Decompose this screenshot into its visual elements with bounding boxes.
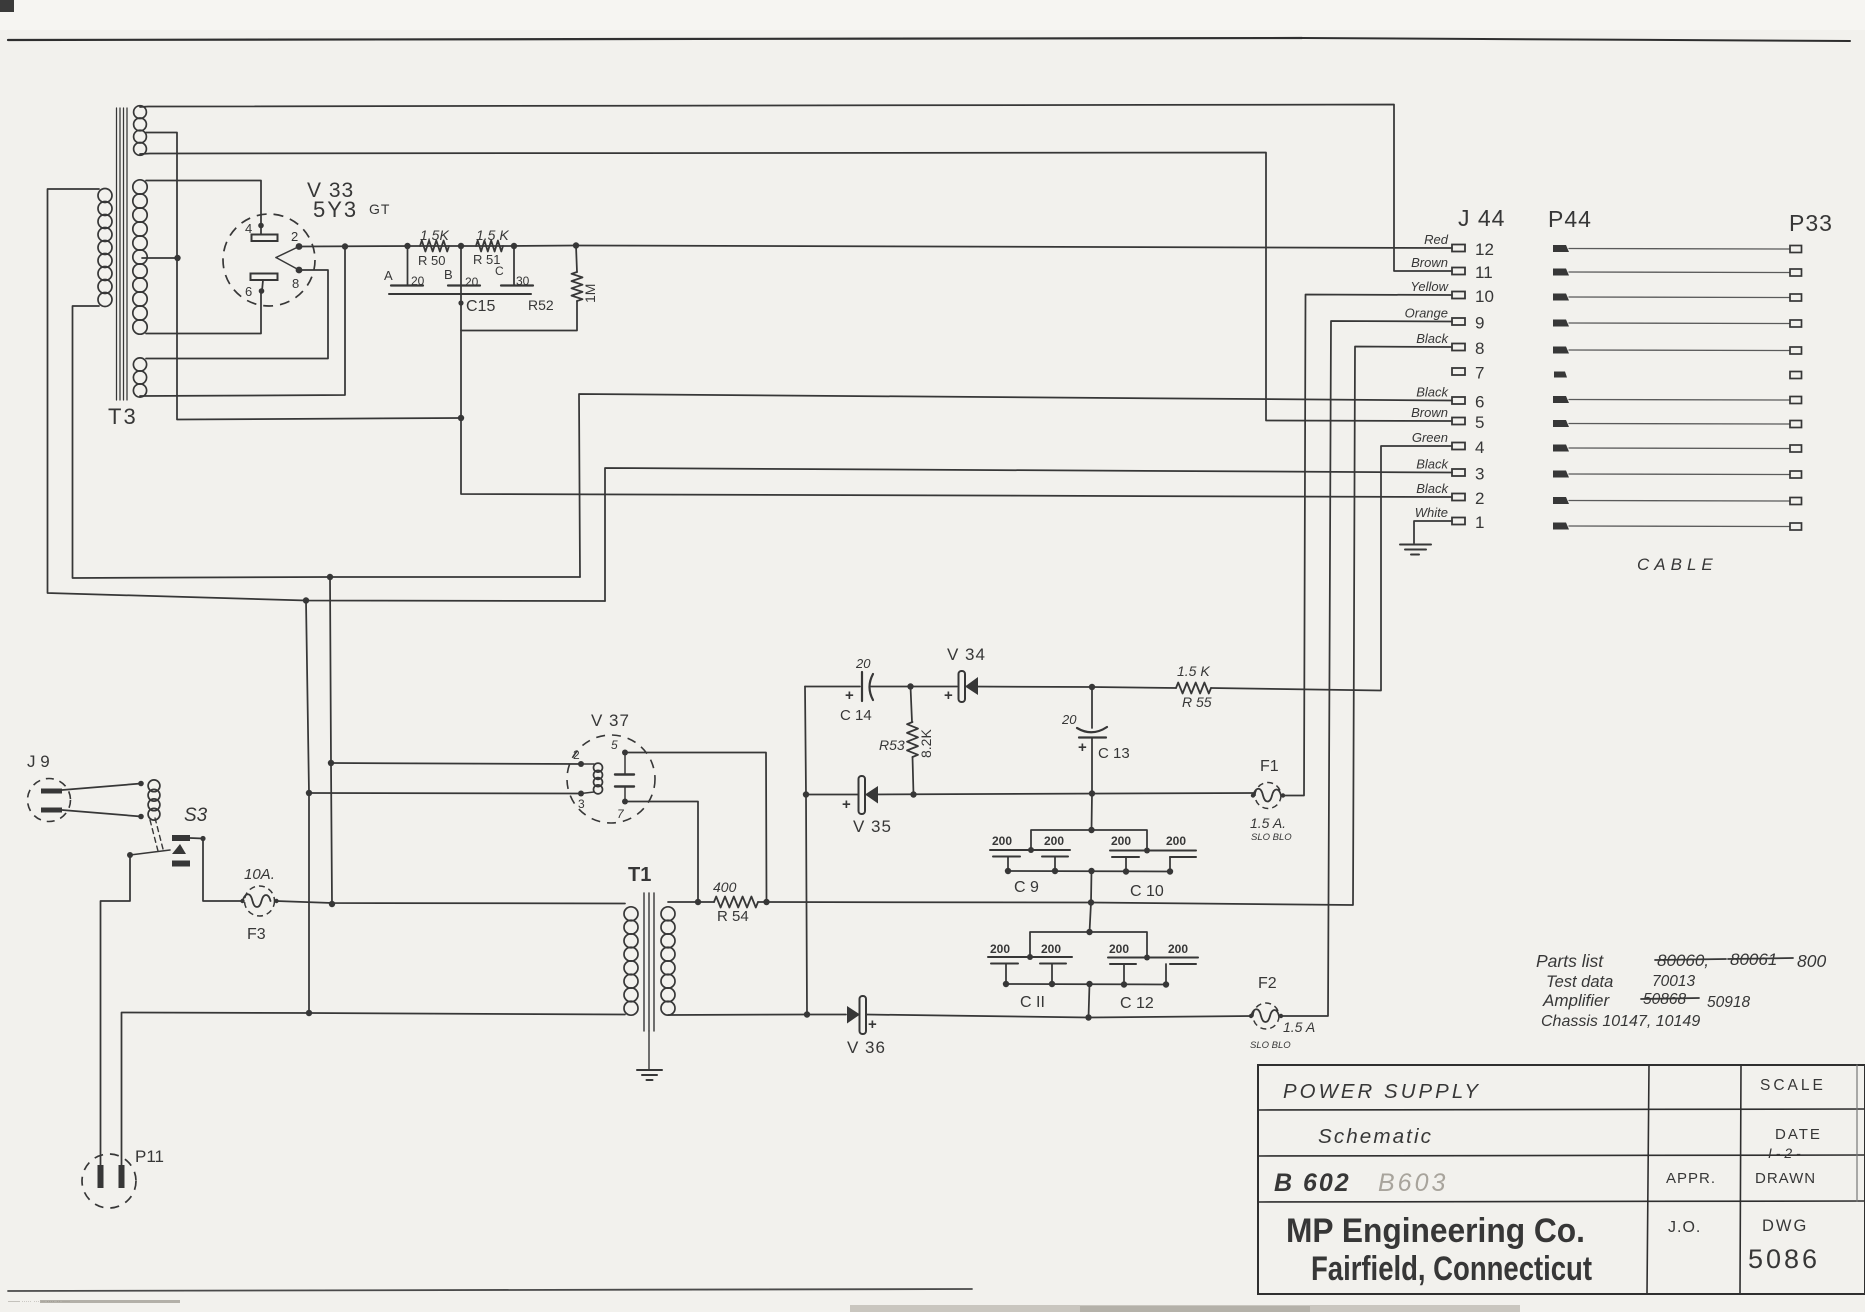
wire top 5V winding top to J44 pin11 via top run: [140, 105, 1452, 272]
C11 bottom plates and stubs: [991, 963, 1018, 965]
svg-text:C: C: [495, 264, 504, 278]
transformer T3 secondary winding middle (HV): [133, 180, 147, 194]
junction dot C15A top: [404, 243, 410, 249]
wire T1 secondary top to R54: [668, 901, 714, 903]
svg-text:F2: F2: [1258, 975, 1277, 992]
J44 pin 11 terminal: [1452, 268, 1465, 275]
C11/C12 feed from R54 rail: [1090, 903, 1092, 933]
P44 pin 5 contact: [1553, 420, 1569, 427]
svg-text:C II: C II: [1020, 994, 1045, 1011]
wire P11 right prong up to V36 rail: [122, 1013, 311, 1166]
V33 pin 8 dot: [296, 267, 303, 274]
wire 5V winding bottom to J44 pin5 via second run: [140, 153, 1452, 422]
svg-text:V 35: V 35: [853, 817, 892, 836]
junction dot upper bus at x330: [327, 574, 333, 580]
svg-text:10: 10: [1475, 287, 1494, 306]
wire C14-V34 top rail: [805, 686, 860, 688]
P44 pin 3 contact: [1553, 471, 1569, 478]
svg-text:Brown: Brown: [1411, 255, 1448, 270]
junction dot V35 left: [803, 791, 809, 797]
P33 pin 6 contact: [1790, 397, 1802, 404]
svg-text:White: White: [1415, 505, 1448, 520]
C15 common bottom plate: [389, 293, 531, 295]
svg-text:200: 200: [990, 942, 1010, 956]
svg-text:V 37: V 37: [591, 711, 630, 730]
C9 bottom plates and stubs: [993, 856, 1020, 858]
wire upper bus up and right to J44 pin 6: [579, 394, 1452, 577]
C12 bottom plates and stubs: [1110, 963, 1136, 965]
junction dot V36 rail at x309: [306, 1010, 312, 1016]
T1 ground symbol: [637, 1069, 662, 1071]
C11/C12 center drop to V36 rail: [1089, 984, 1090, 1018]
fuse F1 1.5A: [1255, 783, 1281, 809]
P44 pin 11 contact: [1553, 269, 1569, 276]
junction dot bracket center: [1088, 827, 1094, 833]
svg-text:R52: R52: [528, 297, 554, 313]
P33 pin 1 contact: [1790, 523, 1802, 530]
title block column line 2: [1740, 1065, 1741, 1294]
svg-text:200: 200: [1044, 834, 1064, 848]
svg-text:1: 1: [1475, 513, 1484, 532]
P44 pin 12 contact: [1553, 245, 1569, 252]
rectifier V36 arrow: [847, 1006, 860, 1024]
svg-text:Black: Black: [1416, 331, 1449, 346]
svg-text:200: 200: [1168, 942, 1188, 956]
C12 top plates: [1108, 957, 1198, 959]
svg-text:Orange: Orange: [1405, 306, 1448, 321]
P33 pin 9 contact: [1790, 320, 1802, 327]
P33 pin 10 contact: [1790, 294, 1802, 301]
junction dot R53 bottom: [910, 791, 916, 797]
rectifier V36 plate bar: [860, 996, 867, 1034]
svg-text:Parts list: Parts list: [1536, 951, 1604, 971]
P33 pin 11 contact: [1790, 269, 1802, 276]
cable wire P44 pin 9 to P33: [1569, 322, 1790, 325]
J44 pin 1 short wire and ground: [1414, 521, 1452, 543]
svg-text:20: 20: [855, 656, 871, 671]
cable wire P44 pin 1 to P33: [1569, 525, 1790, 528]
C15 common down to pin2 long wire: [461, 331, 1452, 498]
svg-text:1.5 K: 1.5 K: [476, 227, 509, 243]
svg-text:6: 6: [245, 284, 252, 299]
junction dot C11/C12 bus center: [1086, 981, 1092, 987]
svg-text:C 14: C 14: [840, 707, 872, 724]
svg-text:Brown: Brown: [1411, 405, 1448, 420]
P33 pin 7 contact: [1790, 372, 1802, 379]
capacitor C15 section A lead: [407, 246, 409, 286]
svg-text:DATE: DATE: [1775, 1126, 1822, 1143]
svg-text:8.2K: 8.2K: [918, 729, 934, 758]
svg-text:SCALE: SCALE: [1760, 1077, 1826, 1094]
S3 pivot dot: [127, 852, 133, 858]
svg-text:J 9: J 9: [27, 752, 50, 771]
P11 left prong: [98, 1165, 104, 1188]
resistor R54 400: [714, 897, 758, 908]
V37 pin 5 dot: [622, 750, 628, 756]
junction dot C11 plates: [1027, 954, 1033, 960]
P44 pin 6 contact: [1553, 396, 1569, 403]
sheet bottom border line: [8, 1289, 972, 1291]
svg-text:20: 20: [1061, 712, 1077, 727]
junction dot center-tap rail meets C15 ground chain: [458, 415, 464, 421]
svg-text:1.5 A.: 1.5 A.: [1250, 815, 1286, 831]
svg-text:P33: P33: [1789, 210, 1833, 236]
capacitor C14 curved plate: [870, 674, 874, 700]
svg-text:5Y3: 5Y3: [313, 197, 358, 222]
mechanical linkage (dashed) from coil to S3: [150, 820, 158, 851]
P44 pin 8 contact: [1553, 347, 1569, 354]
resistor R50 1.5K: [420, 241, 449, 252]
V37 heater coil: [594, 763, 603, 772]
P33 pin 2 contact: [1790, 498, 1802, 505]
svg-text:C 12: C 12: [1120, 995, 1154, 1012]
tube V33 5Y3GT envelope (dashed circle): [223, 214, 315, 306]
C10 top plates: [1110, 850, 1196, 852]
transformer T3 primary winding (left): [98, 189, 112, 203]
C15 common to R52 bottom wire: [461, 294, 577, 331]
svg-text:3: 3: [1475, 465, 1484, 484]
cable wire P44 pin 4 to P33: [1569, 447, 1790, 450]
sheet top border line: [8, 38, 1302, 40]
svg-text:1.5K: 1.5K: [420, 227, 449, 243]
C15 section C lead: [513, 246, 515, 286]
svg-text:+: +: [944, 687, 953, 704]
wire bottom winding bottom up to main output wire: [140, 247, 345, 397]
cable wire P44 pin 11 to P33: [1569, 271, 1790, 274]
svg-text:SLO BLO: SLO BLO: [1251, 832, 1292, 843]
P11 right prong: [119, 1165, 125, 1188]
title block row line 1: [1258, 1109, 1865, 1110]
title block row line 2: [1258, 1155, 1865, 1156]
P33 pin 4 contact: [1790, 445, 1802, 452]
svg-text:5: 5: [1475, 413, 1484, 432]
svg-text:8: 8: [1475, 339, 1484, 358]
wire V33 pin2 main output run to J44 pin 12: [299, 246, 1452, 249]
J9 lower pin: [41, 808, 62, 813]
P33 pin 3 contact: [1790, 471, 1802, 478]
junction dot coil top: [138, 781, 144, 787]
wire to V37 pin 2: [331, 763, 581, 764]
wire S3 upper contact to F3: [190, 838, 243, 901]
transformer T3 secondary winding bottom: [133, 358, 146, 371]
svg-text:50918: 50918: [1707, 994, 1750, 1011]
svg-text:GT: GT: [369, 201, 390, 217]
junction dot V36 rail center: [1085, 1014, 1091, 1020]
rectifier V35 plate bar: [859, 776, 866, 814]
V36 rail wire: [807, 1014, 846, 1016]
svg-text:30: 30: [516, 274, 530, 288]
svg-text:Green: Green: [1412, 430, 1448, 445]
svg-text:200: 200: [1166, 834, 1186, 848]
vertical drop to V37 pin 3: [306, 601, 309, 1014]
V33 pin 2 dot: [296, 243, 303, 250]
J44 pin 8 terminal: [1452, 344, 1465, 351]
C9 top plates: [990, 849, 1070, 851]
fuse F2 1.5A: [1253, 1003, 1279, 1029]
fuse F3 10A: [245, 886, 275, 916]
junction dot R54 left (V37 pin7 net): [695, 899, 701, 905]
svg-text:S3: S3: [184, 805, 208, 826]
V35 rail wire: [806, 794, 858, 796]
J44 pin 12 terminal: [1452, 245, 1465, 252]
junction dot V36 rail left: [804, 1011, 810, 1017]
svg-text:Chassis 10147, 10149: Chassis 10147, 10149: [1541, 1013, 1700, 1030]
junction dot HV center tap: [174, 255, 180, 261]
wire S3 pivot down to P11 left prong: [101, 855, 131, 1167]
P44 pin 2 contact: [1553, 497, 1569, 504]
switch S3 lower contact: [172, 861, 190, 867]
junction dot R54 right (V37 pin5 net): [763, 899, 769, 905]
junction dot bracket center (C11/C12): [1086, 929, 1092, 935]
cable wire P44 pin 5 to P33: [1569, 423, 1790, 426]
svg-text:POWER SUPPLY: POWER SUPPLY: [1283, 1081, 1481, 1103]
P44 pin 10 contact: [1553, 294, 1569, 301]
C15 section B top plate: [448, 284, 480, 286]
svg-text:4: 4: [1475, 438, 1484, 457]
svg-text:+: +: [1078, 739, 1087, 756]
svg-text:200: 200: [1041, 942, 1061, 956]
svg-text:20: 20: [465, 275, 479, 289]
svg-text:V 36: V 36: [847, 1038, 886, 1057]
resistor R51 1.5K: [476, 241, 503, 252]
svg-text:5086: 5086: [1748, 1244, 1820, 1274]
junction dot R53 top: [907, 683, 913, 689]
J9 upper pin: [41, 789, 62, 794]
wire T3 primary top to left bus (down left side): [48, 189, 606, 601]
junction dot C15C top: [511, 243, 517, 249]
vertical tie C14 rail / V35 rail / V36 rail: [805, 687, 807, 1015]
svg-text:P11: P11: [135, 1147, 164, 1166]
cable wire P44 pin 12 to P33: [1569, 248, 1790, 251]
junction dot bottom bus center: [1088, 868, 1094, 874]
svg-text:2: 2: [1475, 489, 1484, 508]
svg-text:+: +: [845, 687, 854, 704]
svg-text:CABLE: CABLE: [1637, 555, 1718, 574]
svg-text:B603: B603: [1378, 1169, 1448, 1197]
svg-text:APPR.: APPR.: [1666, 1170, 1716, 1187]
junction dot C10 plates: [1144, 848, 1150, 854]
svg-text:Yellow: Yellow: [1410, 279, 1449, 294]
cable wire P44 pin 2 to P33: [1569, 500, 1790, 503]
svg-text:10A.: 10A.: [244, 866, 275, 883]
J44 pin 5 terminal: [1452, 418, 1465, 425]
wire V36 rail from P11 through to T1 primary bottom: [310, 1013, 625, 1015]
svg-text:6: 6: [1475, 393, 1484, 412]
svg-text:Black: Black: [1416, 457, 1449, 472]
title block frame: [1258, 1065, 1865, 1294]
title block column line 1: [1647, 1065, 1649, 1294]
vertical drop to V37 pin 2: [330, 577, 332, 904]
junction dot C13 bottom: [1089, 790, 1095, 796]
svg-text:R53: R53: [879, 737, 905, 753]
svg-text:5: 5: [611, 738, 618, 752]
svg-text:3: 3: [578, 797, 585, 811]
V33 pin 6 lead and bottom plate: [251, 274, 278, 281]
svg-text:11: 11: [1475, 263, 1493, 282]
wire 5V winding tap down to HV center tap rail: [146, 133, 461, 420]
junction dot R54 rail center: [1088, 899, 1094, 905]
svg-text:4: 4: [245, 221, 252, 236]
svg-text:J 44: J 44: [1458, 205, 1505, 231]
J44 pin 4 terminal: [1452, 443, 1465, 450]
svg-text:F1: F1: [1260, 758, 1279, 775]
junction dot C15B top: [458, 243, 464, 249]
junction dot C12 plates: [1144, 955, 1150, 961]
wire F2 right to J44 pin 9 riser: [1281, 321, 1452, 1016]
junction dot R52 top: [573, 242, 579, 248]
svg-text:SLO BLO: SLO BLO: [1250, 1040, 1291, 1051]
svg-text:T3: T3: [108, 404, 138, 429]
P44 pin 9 contact: [1553, 320, 1569, 327]
svg-text:7: 7: [1475, 364, 1484, 383]
J44 pin 10 terminal: [1452, 292, 1465, 299]
T1 primary winding (left): [624, 907, 638, 921]
C11/C12 top bracket: [1030, 932, 1147, 957]
P44 pin 4 contact: [1553, 445, 1569, 452]
wire T3 primary bottom to inner left bus: [73, 306, 581, 578]
svg-text:C 10: C 10: [1130, 883, 1164, 900]
wire R55 to J44 pin 4 riser: [1211, 446, 1452, 691]
svg-text:B: B: [444, 267, 453, 282]
title block row line 3: [1258, 1201, 1865, 1202]
capacitor C13 straight plate: [1079, 736, 1106, 738]
rectifier V34 plate bar: [959, 671, 966, 702]
svg-text:400: 400: [713, 879, 737, 895]
svg-text:+: +: [868, 1016, 877, 1033]
svg-text:R 54: R 54: [717, 908, 749, 925]
P44 pin 7 contact: [1554, 372, 1567, 378]
P33 pin 8 contact: [1790, 347, 1802, 354]
C13 lead to V35 rail: [1091, 738, 1093, 794]
C9/C10 feed from V35 rail: [1091, 794, 1094, 831]
V33 filament V between pins 2 and 8: [276, 247, 299, 258]
junction dot C9 plates: [1028, 847, 1034, 853]
T1 secondary winding (right): [661, 907, 675, 921]
svg-text:C 13: C 13: [1098, 745, 1130, 762]
svg-text:Amplifier: Amplifier: [1542, 991, 1610, 1010]
svg-text:Schematic: Schematic: [1318, 1126, 1433, 1148]
svg-text:1M: 1M: [582, 284, 598, 303]
C15 section B lead: [460, 246, 462, 294]
transformer T3 secondary winding top (5V): [134, 106, 147, 119]
wire HV winding bottom to V33 pin 6: [146, 291, 261, 334]
resistor R55 1.5K: [1176, 683, 1211, 694]
svg-text:—— ····· ··· ·· ···· ·· ···: —— ····· ··· ·· ···· ·· ····: [8, 1299, 70, 1305]
J44 pin 3 terminal: [1452, 469, 1465, 476]
junction dot lower bus at x306: [303, 597, 309, 603]
svg-text:R 50: R 50: [418, 253, 445, 268]
svg-text:F3: F3: [247, 926, 266, 943]
junction dot C13 top: [1089, 684, 1095, 690]
wire F1 right to J44 pin 10 riser: [1283, 295, 1452, 796]
wire HV winding top to V33 pin 4: [146, 181, 261, 225]
svg-text:DWG: DWG: [1762, 1217, 1808, 1235]
capacitor C14 straight plate: [861, 672, 863, 701]
svg-text:C15: C15: [466, 298, 495, 315]
svg-text:1.5 A: 1.5 A: [1283, 1019, 1315, 1035]
transformer T1 core: [643, 893, 645, 1031]
svg-text:V 34: V 34: [947, 645, 986, 664]
svg-text:P44: P44: [1548, 206, 1592, 232]
V37 pin 2 dot: [578, 761, 584, 767]
wire F3 to T1 primary top: [276, 901, 625, 904]
svg-text:Black: Black: [1416, 385, 1449, 400]
svg-text:A: A: [384, 268, 393, 283]
switch S3 arm with arrowhead: [130, 850, 170, 855]
C11 top plates: [988, 956, 1072, 958]
J44 pin 6 terminal: [1452, 397, 1465, 404]
C9/C10 top bracket: [1031, 830, 1147, 850]
C15 section A top plate: [391, 284, 423, 286]
transformer T3 core: [116, 108, 118, 400]
wire to V37 pin 3: [309, 792, 581, 795]
sheet right edge line: [1856, 1065, 1858, 1201]
wire V37 pin5 right and down to R54 right: [625, 753, 767, 903]
svg-text:12: 12: [1475, 240, 1494, 259]
J44 pin 7 terminal: [1452, 368, 1465, 375]
junction dot at x345: [342, 243, 348, 249]
junction dot V37 pin3 branch: [306, 790, 312, 796]
svg-text:200: 200: [992, 834, 1012, 848]
capacitor C13 lead from top rail: [1091, 687, 1093, 728]
cable wire P44 pin 10 to P33: [1569, 296, 1790, 299]
J44 pin 1 terminal: [1452, 518, 1465, 525]
resistor R53 8.2K: [911, 687, 913, 723]
svg-text:2: 2: [291, 229, 298, 244]
C15 section C top plate: [501, 284, 533, 286]
V37 cap plates between pins 5 and 7: [615, 773, 634, 775]
resistor R52 1M: [572, 272, 583, 301]
svg-text:70013: 70013: [1652, 973, 1695, 990]
wire bottom winding top to V33 pin 8: [146, 270, 328, 359]
V33 pin 4 lead and top plate: [258, 223, 264, 229]
svg-text:+: +: [842, 796, 851, 813]
svg-text:800: 800: [1797, 951, 1826, 971]
relay coil at J9: [148, 780, 160, 792]
cable wire P44 pin 8 to P33: [1569, 349, 1790, 352]
plug P11 (dashed circle): [82, 1154, 136, 1208]
svg-text:B 602: B 602: [1274, 1169, 1351, 1197]
svg-text:Fairfield, Connecticut: Fairfield, Connecticut: [1311, 1250, 1592, 1288]
cable wire P44 pin 6 to P33: [1569, 399, 1790, 402]
wire J9 lower pin to relay coil bottom: [62, 810, 141, 817]
P33 pin 12 contact: [1790, 246, 1802, 253]
svg-text:J.O.: J.O.: [1668, 1219, 1701, 1236]
rectifier V34 arrow: [965, 677, 978, 695]
svg-text:2: 2: [573, 748, 580, 762]
J44 pin 2 terminal: [1452, 494, 1465, 501]
capacitor C13 curved plate: [1077, 727, 1107, 732]
V37 pin 3 dot: [578, 791, 584, 797]
switch S3 upper contact: [172, 835, 190, 841]
svg-text:200: 200: [1111, 834, 1131, 848]
svg-text:Test data: Test data: [1546, 973, 1613, 991]
cable wire P44 pin 3 to P33: [1569, 473, 1790, 476]
wire T1 secondary bottom to V36 rail: [668, 1014, 807, 1017]
svg-text:I - 2 -: I - 2 -: [1768, 1145, 1801, 1161]
svg-text:8: 8: [292, 276, 299, 291]
wire lower bus up and right to J44 pin 3: [605, 468, 1452, 601]
connector J9 (dashed circle): [28, 779, 71, 822]
P33 pin 5 contact: [1790, 421, 1802, 428]
svg-text:Black: Black: [1416, 481, 1449, 496]
C9/C10 bottom bus: [1008, 870, 1170, 873]
wire V37 pin7 right and down to R54 left: [625, 802, 698, 903]
svg-text:9: 9: [1475, 314, 1484, 333]
svg-text:MP Engineering Co.: MP Engineering Co.: [1286, 1212, 1585, 1250]
tube V37 envelope (dashed circle): [567, 735, 655, 823]
junction dot F3 wire / upper-bus drop: [329, 901, 335, 907]
